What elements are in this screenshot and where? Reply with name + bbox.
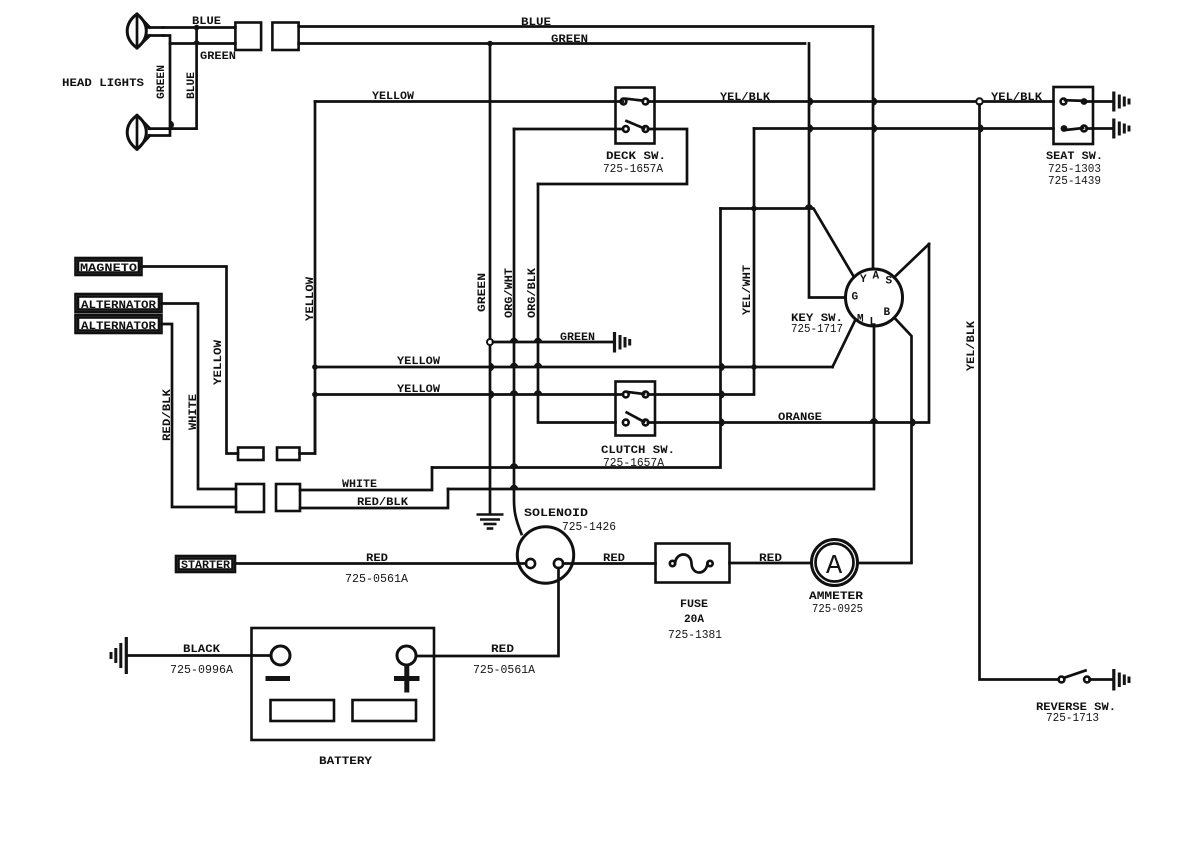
magneto MAGNETO box [76,258,142,275]
wire GREEN horizontal to connector [170,42,235,45]
wire ORG/WHT vertical to solenoid [514,129,522,534]
wire YEL/BLK deck to seat [648,100,1054,103]
node x754 Y-wire dot [751,206,757,212]
alternator ALTERNATOR box 1 [76,294,162,312]
key switch KEY SW. circle [846,269,903,326]
ground classic below GREEN vertical [477,515,504,529]
wire WHITE jog down to connector [300,468,432,491]
svg-text:GREEN: GREEN [200,51,236,63]
ground seat top [1114,92,1129,112]
wire GREEN vertical x809 with hops [809,44,846,298]
svg-text:725-1657A: 725-1657A [603,163,663,176]
battery terminal plus [397,646,416,665]
wire MAGNETO to connector [142,267,239,454]
wire key S diagonal [894,244,929,278]
svg-text:BLUE: BLUE [192,16,221,28]
wire ORG/BLK vertical [538,184,616,423]
wire magneto connector to yellow net [300,398,316,454]
wire RED/BLK alternator2 down [162,324,237,507]
svg-text:SEAT SW.: SEAT SW. [1046,151,1103,163]
headlight LAMP2 [127,115,150,149]
svg-text:YELLOW: YELLOW [397,356,440,368]
wire clutch top right to x754 [648,370,754,395]
svg-text:YEL/WHT: YEL/WHT [742,265,754,315]
wire GREEN main top [299,42,805,45]
svg-text:G: G [852,292,859,304]
svg-text:WHITE: WHITE [188,394,200,430]
battery terminal minus [271,646,290,665]
svg-text:725-0561A: 725-0561A [473,664,535,677]
svg-text:YEL/BLK: YEL/BLK [991,92,1042,104]
svg-text:YEL/BLK: YEL/BLK [720,92,770,104]
ground battery sideways [111,637,126,674]
svg-text:YEL/BLK: YEL/BLK [966,321,978,371]
wire YEL/BLK vertical to reverse switch [980,105,1059,680]
wire BLUE vertical x873 with hops [872,27,875,270]
reverse switch REVERSE SW. contacts [1059,677,1065,683]
fuse element [670,555,713,573]
wire key B diagonal and vertical [858,318,912,563]
svg-text:725-0561A: 725-0561A [345,573,408,586]
svg-text:ORANGE: ORANGE [778,412,822,424]
svg-text:725-1717: 725-1717 [791,323,843,336]
svg-text:M: M [857,314,864,326]
ground GREEN sideways [615,332,630,353]
svg-text:AMMETER: AMMETER [809,591,863,603]
wire YELLOW top horizontal [315,100,623,103]
svg-text:BATTERY: BATTERY [319,756,372,768]
svg-text:GREEN: GREEN [156,65,168,99]
wire seat bottom horizontal [754,127,1054,130]
svg-text:YELLOW: YELLOW [213,340,225,385]
hop GREEN over BLUE vertical [193,40,199,43]
wire key L vertical [448,326,874,489]
svg-text:725-1426: 725-1426 [562,521,616,534]
wire key M diagonal [833,320,856,368]
svg-text:HEAD LIGHTS: HEAD LIGHTS [62,78,144,90]
svg-text:GREEN: GREEN [560,332,595,344]
battery cell rect 2 [353,700,417,721]
svg-text:GREEN: GREEN [477,273,489,312]
svg-text:BLUE: BLUE [521,17,551,29]
battery plus sign [394,666,420,693]
battery cell rect 1 [271,700,335,721]
wire YELLOW row2 with hops [315,393,623,396]
battery BATTERY box [252,628,435,740]
wire GREEN vertical x490 with jogs [489,44,492,514]
hop WHITE over ORG/WHT [510,463,518,467]
wire RED solenoid to fuse [563,562,656,565]
node YEL/BLK connector donut [976,98,982,104]
wire seat top to ground [1087,100,1113,103]
svg-text:MAGNETO: MAGNETO [80,263,137,275]
svg-text:RED: RED [759,553,782,565]
solenoid terminal right [554,559,563,568]
wire BLUE lamp1 to connector [163,26,235,29]
battery minus sign [266,676,291,681]
svg-text:725-0925: 725-0925 [812,603,863,616]
connector box pair top left [235,23,261,51]
seat switch bottom contacts [1061,125,1068,132]
alternator ALTERNATOR box 2 [76,315,162,333]
node GREEN tee dot [487,41,493,47]
deck switch DECK SW. box [616,88,655,144]
wire ORANGE clutch to key S with hop and jog [648,244,929,423]
seat switch top contacts [1061,99,1067,105]
wire RED starter to solenoid [235,562,526,565]
clutch switch top contacts [623,392,629,398]
deck switch top contacts [621,99,627,105]
svg-text:ALTERNATOR: ALTERNATOR [81,300,156,312]
svg-text:DECK SW.: DECK SW. [606,151,666,163]
solenoid SOLENOID circle [517,527,573,583]
svg-text:YELLOW: YELLOW [372,91,414,103]
wire BLACK ground to battery minus [128,654,271,657]
ammeter AMMETER circles [812,540,858,586]
svg-text:STARTER: STARTER [181,560,230,572]
svg-text:CLUTCH SW.: CLUTCH SW. [601,445,675,457]
wire YELLOW row1 with hops [315,366,833,369]
fuse FUSE box [656,544,730,583]
svg-text:A: A [873,271,880,283]
wire BLUE main top [299,25,873,28]
connector pair alternator big [236,484,264,512]
svg-text:WHITE: WHITE [342,479,377,491]
svg-text:RED: RED [366,553,388,565]
svg-text:Y: Y [860,274,867,286]
svg-text:RED/BLK: RED/BLK [162,389,174,441]
svg-text:725-1381: 725-1381 [668,629,722,642]
svg-text:A: A [826,552,843,582]
headlight LAMP1 [127,14,163,48]
svg-text:SOLENOID: SOLENOID [524,508,588,520]
solenoid terminal left [526,559,535,568]
wire deck bottom left to ORG/WHT [514,128,623,131]
svg-text:B: B [884,307,891,319]
clutch switch CLUTCH SW. box [616,382,656,436]
wire RED/BLK jog [300,489,448,508]
node GREEN ground tee donut [487,339,493,345]
svg-text:FUSE: FUSE [680,599,708,611]
wire key Y horizontal and diagonal [721,209,855,278]
wire reverse to ground [1090,678,1113,681]
svg-text:RED: RED [491,644,514,656]
svg-text:RED/BLK: RED/BLK [357,497,408,509]
wire WHITE alternator1 down [162,304,237,490]
svg-text:S: S [886,276,893,288]
svg-text:725-1713: 725-1713 [1046,712,1099,725]
svg-text:GREEN: GREEN [551,34,588,46]
connector pair magneto small [238,448,264,461]
ground seat bottom [1114,119,1129,139]
wire WHITE vertical x720 with jogs [432,209,721,468]
svg-text:ORG/BLK: ORG/BLK [527,268,539,318]
svg-text:YELLOW: YELLOW [397,384,440,396]
clutch switch bottom contacts [623,420,629,426]
svg-text:BLUE: BLUE [186,72,198,99]
wire GREEN to ground with hops [493,341,613,344]
wire RED solenoid to battery plus [416,568,559,656]
svg-text:725-0996A: 725-0996A [170,664,233,677]
node YELLOW row1 dot right [751,364,757,370]
node YELLOW row2 dot left [312,392,318,398]
node BLUE junction [194,25,200,31]
svg-text:ORG/WHT: ORG/WHT [504,268,516,318]
wire YELLOW vertical x315 [314,102,317,454]
deck switch bottom contacts [623,126,629,132]
wire x754 YEL/WHT vertical [753,129,756,365]
svg-text:725-1439: 725-1439 [1048,175,1101,188]
svg-text:YELLOW: YELLOW [305,277,317,321]
wire deck bottom right to x687 down [538,129,687,184]
wire BLUE vertical to lamp2 [149,28,197,129]
hop RED/BLK over ORG/WHT [510,485,518,489]
starter STARTER box [176,556,235,572]
svg-text:RED: RED [603,553,625,565]
ground reverse switch [1114,669,1129,691]
svg-text:ALTERNATOR: ALTERNATOR [81,321,156,333]
wire RED fuse to ammeter [730,562,812,565]
svg-text:BLACK: BLACK [183,644,220,656]
seat switch SEAT SW. box [1054,87,1094,144]
svg-text:20A: 20A [684,614,704,626]
wire GREEN lamp1 down branch [149,36,170,136]
node YELLOW row1 dot left [312,364,318,370]
wire seat bottom to ground [1087,127,1113,130]
